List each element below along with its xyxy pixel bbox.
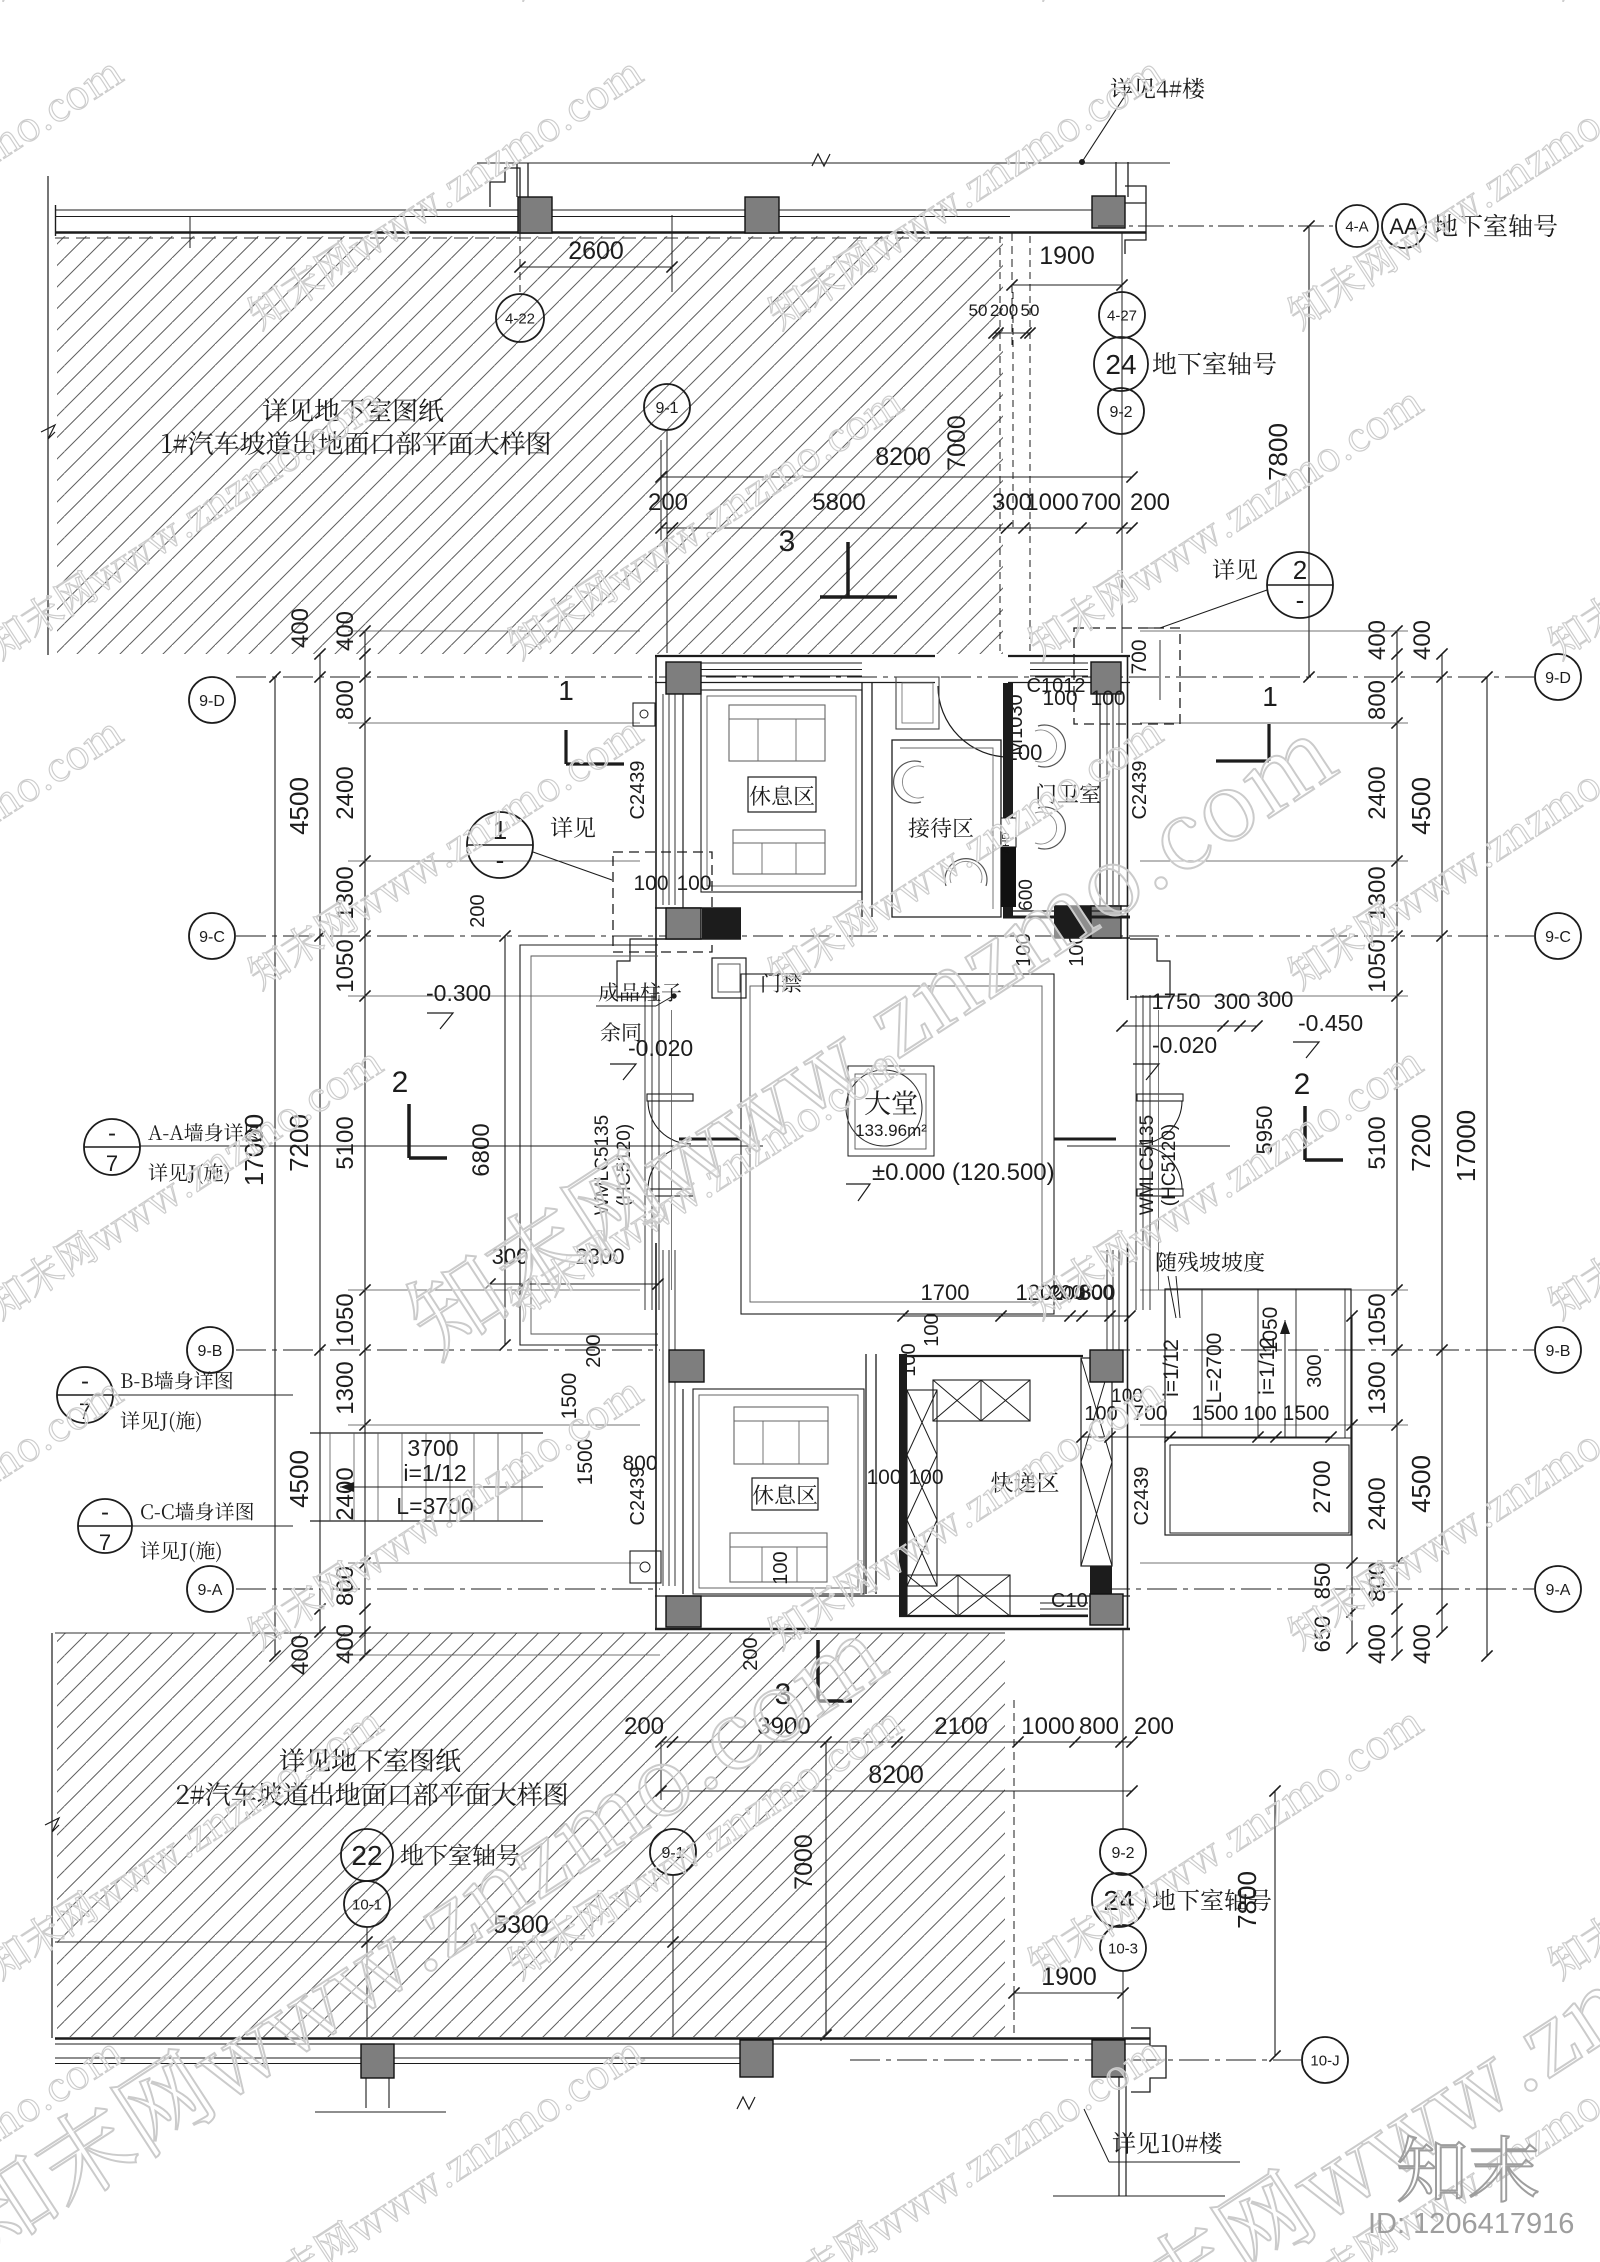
svg-text:1500: 1500 xyxy=(558,1373,581,1420)
svg-text:400: 400 xyxy=(1364,620,1391,660)
svg-text:300: 300 xyxy=(1214,989,1251,1014)
column top-left building corner xyxy=(666,662,701,694)
svg-text:600: 600 xyxy=(1016,879,1037,911)
bottom band column left xyxy=(361,2044,394,2078)
dim 8200 bottom xyxy=(661,1790,1132,1792)
svg-text:ID: 1206417916: ID: 1206417916 xyxy=(1368,2208,1574,2240)
svg-text:400: 400 xyxy=(1409,1624,1436,1664)
left edge vertical line with break xyxy=(47,176,49,655)
svg-text:7000: 7000 xyxy=(790,1834,818,1890)
svg-text:1750: 1750 xyxy=(1152,989,1201,1014)
axis bubble AA xyxy=(1382,204,1426,248)
top podium edge wall lines xyxy=(55,209,1092,211)
dashed detail box 2 xyxy=(1074,628,1180,724)
svg-text:2100: 2100 xyxy=(934,1713,987,1740)
svg-text:3: 3 xyxy=(779,525,796,558)
svg-text:5950: 5950 xyxy=(1252,1106,1277,1155)
rest area label box xyxy=(748,777,816,812)
svg-text:9-C: 9-C xyxy=(199,929,225,946)
svg-text:2: 2 xyxy=(392,1066,409,1099)
svg-text:7: 7 xyxy=(106,1151,118,1176)
axis 9-A dash-dot xyxy=(236,1588,660,1590)
left extension lines xyxy=(348,722,640,724)
svg-text:7200: 7200 xyxy=(1406,1114,1436,1172)
dimension row 200 5800 300 1000 700 200 xyxy=(661,527,1132,529)
svg-text:100: 100 xyxy=(921,1313,943,1346)
svg-text:200: 200 xyxy=(990,301,1018,320)
svg-text:7800: 7800 xyxy=(1263,423,1293,481)
label 成品柱子 余同 xyxy=(599,982,681,1001)
wall jog left of 9-C xyxy=(617,939,656,997)
left dim vertical line inner xyxy=(364,631,366,1655)
svg-text:200: 200 xyxy=(1134,1713,1174,1740)
bottom band column mid xyxy=(740,2040,773,2077)
svg-text:100: 100 xyxy=(1042,687,1077,710)
left plaza border xyxy=(520,945,658,1345)
svg-text:-: - xyxy=(1296,585,1305,615)
guard room walls xyxy=(1003,683,1013,917)
svg-text:1500: 1500 xyxy=(574,1439,597,1486)
sofa bottom of rest area xyxy=(733,830,825,874)
AHD box xyxy=(1001,847,1016,907)
lobby decorative circle xyxy=(846,1070,922,1146)
right wall glazing above X window xyxy=(1106,1250,1108,1358)
axis 10-J dash-dot xyxy=(850,2059,1301,2061)
column 9-C right xyxy=(1091,906,1121,938)
svg-text:9-A: 9-A xyxy=(1546,1582,1571,1599)
svg-text:4500: 4500 xyxy=(284,1450,314,1508)
left dim vertical line outer 17000 xyxy=(274,677,276,1656)
dim 1900 bottom xyxy=(1014,1992,1123,1994)
rest area inner partition xyxy=(861,683,863,917)
left entrance double door WMLC5135 xyxy=(647,1094,693,1101)
wall jog right of 9-C xyxy=(1130,939,1170,997)
hatch label bottom 详见地下室图纸 xyxy=(280,1748,460,1772)
axis bubble 9-C right xyxy=(1535,913,1581,959)
svg-text:850: 850 xyxy=(1310,1563,1335,1600)
express area lockers left xyxy=(907,1390,937,1586)
svg-text:800: 800 xyxy=(622,1452,657,1475)
svg-text:100: 100 xyxy=(770,1551,792,1584)
svg-text:133.96m²: 133.96m² xyxy=(855,1121,927,1140)
axis bubble 9-1 top xyxy=(644,384,690,430)
column 9-B left xyxy=(669,1350,704,1382)
svg-text:4500: 4500 xyxy=(1406,777,1436,835)
svg-text:800: 800 xyxy=(332,680,359,720)
svg-text:7: 7 xyxy=(99,1530,111,1555)
svg-text:100: 100 xyxy=(1243,1403,1276,1425)
axis bubble 9-D right xyxy=(1535,654,1581,700)
sofa top of rest area xyxy=(729,705,825,761)
express area label xyxy=(991,1472,1058,1493)
svg-text:C2439: C2439 xyxy=(1131,1467,1153,1526)
reception desk xyxy=(892,740,1001,917)
svg-text:1300: 1300 xyxy=(332,1361,359,1414)
access control 门禁 xyxy=(712,958,746,998)
right ramp up arrow xyxy=(1284,1320,1286,1438)
svg-text:6800: 6800 xyxy=(468,1123,495,1176)
left dim vertical line mid xyxy=(319,654,321,1632)
building right wall upper window C2439 xyxy=(1127,656,1129,1000)
right ramp outline xyxy=(1165,1289,1351,1535)
svg-text:5800: 5800 xyxy=(812,489,865,516)
column bottom-left corner xyxy=(666,1596,701,1627)
svg-text:9-B: 9-B xyxy=(198,1343,223,1360)
guard room chair 1 xyxy=(1038,725,1065,767)
svg-text:5100: 5100 xyxy=(332,1116,359,1169)
svg-text:9-B: 9-B xyxy=(1546,1343,1571,1360)
label 随残坡坡度 xyxy=(1157,1251,1265,1272)
svg-text:2400: 2400 xyxy=(1364,1477,1391,1530)
svg-text:2600: 2600 xyxy=(568,237,624,265)
svg-text:1500: 1500 xyxy=(1283,1402,1330,1425)
znzmo logo bottom right xyxy=(1399,2136,1538,2202)
svg-text:7800: 7800 xyxy=(1232,1871,1262,1929)
axis bubble 9-1 bottom xyxy=(650,1829,696,1875)
column top-right building corner xyxy=(1091,662,1121,694)
label 地下室轴号 top-right xyxy=(1434,214,1557,237)
guard room chair 2 xyxy=(1038,807,1065,849)
wall stub above 4-A column xyxy=(1115,162,1117,197)
svg-text:200: 200 xyxy=(583,1334,605,1367)
dim 7000 bottom vertical xyxy=(825,1742,827,2035)
left edge vertical bottom with break xyxy=(51,1633,53,2038)
express area walls xyxy=(899,1354,907,1616)
svg-text:9-D: 9-D xyxy=(199,693,225,710)
top band column 2 xyxy=(745,197,779,233)
bottom podium wall lines xyxy=(55,2037,1150,2039)
svg-text:2400: 2400 xyxy=(332,1467,359,1520)
svg-text:2400: 2400 xyxy=(332,766,359,819)
window C2439 top-left glazing xyxy=(700,662,862,664)
dashed detail box 1 xyxy=(613,852,712,952)
wall between bottom rooms xyxy=(865,1354,867,1594)
tick below top band xyxy=(189,216,191,248)
door M1030 swing xyxy=(938,686,1009,757)
bottom band column right xyxy=(1092,2040,1125,2077)
svg-text:-: - xyxy=(101,1499,109,1526)
hatch label bottom 2#汽车坡道出地面口部平面大样图 xyxy=(177,1782,567,1806)
svg-text:10-1: 10-1 xyxy=(352,1896,382,1913)
svg-text:100: 100 xyxy=(866,1466,901,1489)
svg-text:800: 800 xyxy=(1080,1282,1113,1304)
svg-text:WMLC5135: WMLC5135 xyxy=(1137,1115,1158,1215)
left ramp treads xyxy=(310,1432,543,1434)
svg-text:24: 24 xyxy=(1105,349,1136,380)
building top wall xyxy=(655,655,935,657)
svg-text:i=1/12: i=1/12 xyxy=(403,1460,466,1486)
svg-text:100: 100 xyxy=(676,872,711,895)
detail circle 1 left xyxy=(467,812,533,878)
svg-text:1000: 1000 xyxy=(1021,1713,1074,1740)
svg-text:17000: 17000 xyxy=(1451,1110,1481,1182)
svg-text:8200: 8200 xyxy=(875,443,931,471)
hatched podium area top-left xyxy=(57,236,1003,654)
dim 7800 bottom right xyxy=(1274,1791,1276,2056)
svg-text:1050: 1050 xyxy=(1364,939,1391,992)
svg-text:4-27: 4-27 xyxy=(1107,307,1137,324)
axis bubble 10-1 bottom xyxy=(344,1881,390,1927)
dim 5300 bottom xyxy=(367,1941,673,1943)
svg-text:22: 22 xyxy=(351,1840,382,1871)
building left wall lower window xyxy=(655,1243,657,1630)
column bottom-right corner xyxy=(1090,1594,1123,1625)
lobby floor outer border xyxy=(741,974,1054,1314)
svg-text:100: 100 xyxy=(1090,687,1125,710)
axis bubble 9-2 bottom xyxy=(1100,1829,1146,1875)
dimension 1900 top xyxy=(1011,233,1013,345)
svg-text:-0.300: -0.300 xyxy=(426,980,491,1006)
axis bubble 9-C left xyxy=(189,913,235,959)
axis bubble 9-A left xyxy=(187,1566,233,1612)
svg-text:8200: 8200 xyxy=(868,1761,924,1789)
axis 9-B dash-dot xyxy=(236,1349,660,1351)
svg-text:-0.020: -0.020 xyxy=(1152,1032,1217,1058)
bottom rest area label box xyxy=(752,1478,818,1510)
svg-text:400: 400 xyxy=(1364,1624,1391,1664)
svg-text:5100: 5100 xyxy=(1364,1116,1391,1169)
right dim vertical outer 17000 xyxy=(1486,677,1488,1656)
svg-text:300: 300 xyxy=(1257,987,1294,1012)
building left wall upper window C2439 xyxy=(655,656,657,1000)
top band column 1 xyxy=(518,197,552,233)
rest area bottom room border xyxy=(693,1389,864,1594)
right entrance double door WMLC5135 xyxy=(1137,1094,1183,1101)
dim 700 at detail 2 xyxy=(1159,640,1161,700)
svg-text:1050: 1050 xyxy=(1364,1293,1391,1346)
svg-text:9-C: 9-C xyxy=(1545,929,1571,946)
reception counter window xyxy=(896,677,939,729)
building bottom wall xyxy=(655,1595,1130,1597)
svg-text:9-2: 9-2 xyxy=(1111,1845,1134,1862)
dim row 200 3900 2100 1000 800 200 bottom xyxy=(661,1741,1132,1743)
svg-text:10-J: 10-J xyxy=(1310,2052,1339,2069)
svg-text:400: 400 xyxy=(287,608,314,648)
dimension 7800 right top xyxy=(1308,226,1310,677)
svg-text:1050: 1050 xyxy=(332,1293,359,1346)
lobby label 大堂 xyxy=(865,1090,917,1115)
svg-text:2: 2 xyxy=(1293,555,1307,585)
detail bubble C-C xyxy=(78,1499,132,1553)
svg-text:50: 50 xyxy=(969,301,988,320)
svg-text:(HC5120): (HC5120) xyxy=(1159,1124,1180,1206)
svg-text:-0.020: -0.020 xyxy=(628,1035,693,1061)
sofa top of bottom rest area xyxy=(734,1407,828,1464)
axis bubble 9-D left xyxy=(189,677,235,723)
reception chair 2 xyxy=(945,859,987,886)
axis 9-D dash-dot xyxy=(236,676,1534,678)
left ramp arrow xyxy=(340,1486,543,1488)
top band column 4-A xyxy=(1092,196,1125,228)
fixture box left top xyxy=(633,703,655,726)
svg-text:4-A: 4-A xyxy=(1345,218,1368,235)
svg-text:3700: 3700 xyxy=(407,1435,458,1461)
svg-text:1700: 1700 xyxy=(921,1280,970,1305)
svg-text:L=2700: L=2700 xyxy=(1203,1333,1226,1404)
leader 详见10#楼 xyxy=(1084,2109,1109,2162)
svg-text:200: 200 xyxy=(1130,489,1170,516)
reception chair 1 xyxy=(894,761,921,803)
svg-text:200: 200 xyxy=(467,894,489,927)
svg-text:300: 300 xyxy=(1304,1354,1326,1387)
steps left of lobby xyxy=(644,995,646,1310)
dimension 2600 xyxy=(519,233,521,292)
svg-text:1000: 1000 xyxy=(1025,489,1078,516)
svg-text:400: 400 xyxy=(332,1624,359,1664)
wall stub above column 1 xyxy=(516,163,518,197)
axis bubble 4-22 xyxy=(496,294,544,342)
axis stack 4-27 24 9-2 top xyxy=(1121,233,1123,653)
axis bubble 9-B left xyxy=(187,1327,233,1373)
top-left step outline xyxy=(490,168,520,233)
svg-text:1900: 1900 xyxy=(1039,242,1095,270)
axis bubble 10-J xyxy=(1302,2037,1348,2083)
window C1012 bottom glazing xyxy=(1040,1602,1088,1604)
svg-text:7000: 7000 xyxy=(943,415,971,471)
axis bubble 22 bottom xyxy=(341,1829,393,1881)
svg-text:2700: 2700 xyxy=(1309,1460,1336,1513)
right dim vertical inner xyxy=(1396,631,1398,1655)
svg-text:L=3700: L=3700 xyxy=(396,1493,473,1519)
svg-text:-0.450: -0.450 xyxy=(1298,1010,1363,1036)
axis bubble 24 bottom xyxy=(1092,1873,1146,1927)
hatch label top 1#汽车坡道出地面口部平面大样图 xyxy=(162,431,550,455)
svg-text:200: 200 xyxy=(624,1713,664,1740)
hatched podium area bottom-left xyxy=(57,1633,1005,2037)
svg-text:4-22: 4-22 xyxy=(505,310,535,327)
svg-text:2400: 2400 xyxy=(1364,766,1391,819)
axis A-A line xyxy=(140,1145,763,1147)
svg-text:800: 800 xyxy=(1079,1713,1119,1740)
右侧10#楼 stepped outline xyxy=(1131,2028,1166,2092)
express area lockers top xyxy=(933,1380,1030,1421)
wall 9-C row right xyxy=(1054,905,1130,907)
right extension lines xyxy=(1140,722,1408,724)
hatch label top 详见地下室图纸 xyxy=(263,398,443,422)
svg-text:9-1: 9-1 xyxy=(655,400,678,417)
svg-text:C2439: C2439 xyxy=(1129,761,1151,820)
axis 9-C dash-dot xyxy=(236,935,1534,937)
svg-text:800: 800 xyxy=(1364,680,1391,720)
svg-text:AA: AA xyxy=(1389,214,1419,239)
svg-text:1300: 1300 xyxy=(1364,1361,1391,1414)
right dim vertical mid xyxy=(1441,654,1443,1632)
svg-text:1: 1 xyxy=(1262,681,1278,712)
svg-text:700: 700 xyxy=(1081,489,1121,516)
svg-text:700: 700 xyxy=(1128,639,1151,674)
svg-text:2: 2 xyxy=(1294,1068,1311,1101)
detail bubble B-B xyxy=(57,1367,113,1423)
detail circle 2 right xyxy=(1267,552,1333,618)
svg-text:9-2: 9-2 xyxy=(1109,404,1132,421)
svg-text:4500: 4500 xyxy=(284,777,314,835)
svg-text:1050: 1050 xyxy=(1259,1307,1282,1354)
svg-text:100: 100 xyxy=(908,1466,943,1489)
column 9-B right express xyxy=(1090,1350,1123,1382)
svg-text:100: 100 xyxy=(898,1343,920,1376)
long reference line with break xyxy=(477,162,1170,164)
svg-text:-: - xyxy=(496,845,505,875)
svg-text:200: 200 xyxy=(648,489,688,516)
svg-text:400: 400 xyxy=(287,1635,314,1675)
leader 详见4#楼 xyxy=(1082,88,1130,162)
axis bubble 4-A xyxy=(1336,205,1378,247)
dimension 8200 top xyxy=(661,476,1132,478)
svg-text:400: 400 xyxy=(1409,620,1436,660)
steps right of lobby xyxy=(1135,995,1137,1310)
right wall X window xyxy=(1081,1358,1112,1566)
svg-text:1050: 1050 xyxy=(332,939,359,992)
fixture box left bottom xyxy=(630,1551,661,1583)
svg-text:200: 200 xyxy=(740,1637,762,1670)
large watermarks xyxy=(396,706,1344,1363)
svg-text:i=1/12: i=1/12 xyxy=(1160,1339,1183,1397)
window C1012 top glazing xyxy=(1030,662,1088,664)
svg-text:10-3: 10-3 xyxy=(1108,1940,1138,1957)
sofa bottom of bottom rest area xyxy=(730,1533,827,1582)
svg-text:1: 1 xyxy=(558,675,574,706)
svg-text:9-D: 9-D xyxy=(1545,670,1571,687)
axis bubble 9-B right xyxy=(1535,1327,1581,1373)
svg-text:4500: 4500 xyxy=(1406,1455,1436,1513)
svg-text:-: - xyxy=(108,1120,116,1147)
svg-text:C2439: C2439 xyxy=(627,761,649,820)
column 9-C left xyxy=(666,908,701,939)
svg-text:C2439: C2439 xyxy=(627,1467,649,1526)
svg-text:±0.000 (120.500): ±0.000 (120.500) xyxy=(872,1159,1055,1186)
svg-text:1500: 1500 xyxy=(1192,1402,1239,1425)
axis bubble 9-A right xyxy=(1535,1566,1581,1612)
axis bubble 10-3 bottom xyxy=(1100,1925,1146,1971)
rest area room border top xyxy=(701,690,862,892)
wall 9-C row left xyxy=(655,907,741,909)
svg-text:-: - xyxy=(81,1368,89,1395)
reception area label xyxy=(909,818,974,838)
detail bubble A-A xyxy=(84,1119,140,1175)
guard room label xyxy=(1038,783,1101,803)
express area lockers bottom xyxy=(907,1575,1010,1616)
lobby center square xyxy=(848,1066,934,1156)
axis 4-A dash-dot line xyxy=(1098,225,1336,227)
svg-text:9-A: 9-A xyxy=(198,1582,223,1599)
svg-text:100: 100 xyxy=(633,872,668,895)
right ramp dim line xyxy=(1351,1316,1353,1648)
